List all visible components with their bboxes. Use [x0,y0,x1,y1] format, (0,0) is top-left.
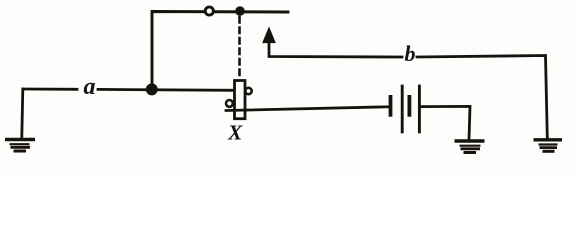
wire a : from label gap through junction to component X [98,88,234,92]
ground (far right) [534,140,563,152]
ground (middle, battery return) [455,141,485,153]
battery : long plate 2 [418,85,421,134]
junction dot where left vertical meets wire a [146,84,157,95]
component X : left lug circle [226,100,233,107]
node open circle on top wire [205,7,213,15]
wire top horizontal with corner down at left [152,12,288,90]
ground (left) [5,140,35,152]
wire b : from label gap to right corner and down [417,56,547,139]
dashed wire from top node down to component X [238,17,241,77]
svg-text:a: a [84,74,96,100]
wire: left vertical down to ground [22,89,23,138]
component X : body rectangle [235,81,246,119]
svg-text:X: X [227,121,243,145]
wire from component X to battery [226,107,389,111]
wire a : from left ground corner to label gap [23,88,77,91]
battery : long plate 1 [401,85,404,134]
battery : short plate 2 [407,95,411,117]
battery : short plate 1 [389,95,393,117]
wire from battery to corner and down to ground [421,106,470,139]
node filled dot on top wire [236,7,245,16]
svg-text:b: b [405,41,416,66]
arrow head at pickup point b [263,28,275,43]
wire: arrow shaft down then right along b to label gap [269,40,402,57]
component X : right lug circle [245,88,251,94]
